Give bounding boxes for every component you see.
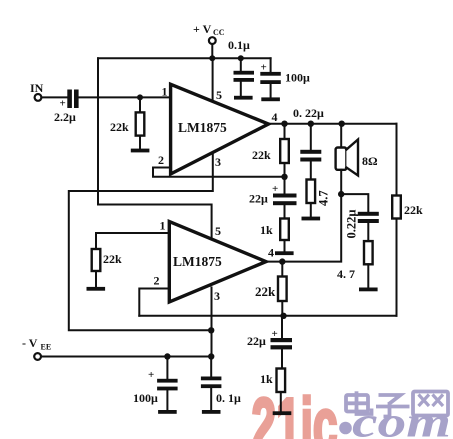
svg-text:3: 3 xyxy=(215,155,221,169)
capacitor C5 0.22µ zobel1 xyxy=(300,124,321,180)
node speaker top junction xyxy=(339,121,345,127)
svg-text:CC: CC xyxy=(213,28,225,37)
wire U1 pin2 step to node A xyxy=(153,168,285,177)
svg-text:2.2μ: 2.2μ xyxy=(54,110,76,124)
capacitor C2 0.1µ (Vcc bypass) xyxy=(228,38,254,96)
svg-text:0.1μ: 0.1μ xyxy=(228,38,250,52)
svg-text:22k: 22k xyxy=(103,252,122,266)
op-amp U2 LM1875 xyxy=(154,219,275,304)
svg-text:EE: EE xyxy=(41,343,52,352)
ground for R9 xyxy=(273,411,292,415)
resistor R8 22k feedback U2 xyxy=(255,262,287,316)
ground for R4 xyxy=(302,217,321,221)
node U2 output xyxy=(279,258,285,264)
wire input capacitor to U1 pin1 xyxy=(79,96,171,98)
svg-text:0.22μ: 0.22μ xyxy=(345,210,359,239)
wire top Vcc rail xyxy=(98,57,271,59)
wire speaker bottom to zobel2 xyxy=(341,194,368,212)
resistor R3 1k (U1 gain) xyxy=(260,219,289,253)
speaker LS1 8Ω xyxy=(336,124,378,194)
svg-text:1k: 1k xyxy=(260,223,273,237)
svg-text:+: + xyxy=(261,62,267,74)
ground for R5 xyxy=(359,288,378,292)
svg-text:2: 2 xyxy=(154,274,160,288)
svg-text:+: + xyxy=(60,98,66,110)
svg-text:22k: 22k xyxy=(404,203,423,217)
svg-text:IN: IN xyxy=(30,81,44,95)
svg-text:+: + xyxy=(272,183,278,195)
node pin3 / rail junction xyxy=(208,353,214,359)
capacitor C8 100µ (Vee bulk) xyxy=(133,357,178,411)
node zobel1 junction xyxy=(308,121,314,127)
svg-text:0. 22μ: 0. 22μ xyxy=(293,106,324,120)
capacitor C9 0.1µ (Vee bypass) xyxy=(201,357,241,411)
wire U2 pin2 step xyxy=(139,289,169,316)
svg-text:4.7: 4.7 xyxy=(317,190,331,206)
-Vee terminal xyxy=(22,336,51,360)
svg-text:1k: 1k xyxy=(260,372,273,386)
node U1 output xyxy=(281,121,287,127)
svg-text:100μ: 100μ xyxy=(285,71,310,85)
svg-text:22k: 22k xyxy=(252,148,271,162)
svg-text:- V: - V xyxy=(22,336,38,350)
+Vcc terminal xyxy=(193,22,225,58)
ground for R7 xyxy=(87,287,106,291)
node input junction xyxy=(137,94,143,100)
node 0.1µ junction xyxy=(238,55,244,61)
resistor R2 22k feedback U1 xyxy=(252,124,289,177)
capacitor C7 22µ (U2 gain) xyxy=(247,316,292,369)
wire U2 pin1 xyxy=(96,233,169,288)
capacitor C3 100µ (Vcc bulk) xyxy=(260,58,310,98)
resistor R4 4.7 zobel1 xyxy=(307,180,331,218)
svg-text:22μ: 22μ xyxy=(249,192,268,206)
svg-text:8Ω: 8Ω xyxy=(362,154,378,168)
svg-text:+: + xyxy=(272,328,278,340)
svg-text:LM1875: LM1875 xyxy=(178,120,227,135)
svg-text:5: 5 xyxy=(215,224,221,238)
ground for R1 xyxy=(131,149,150,153)
svg-text:1: 1 xyxy=(160,219,166,233)
svg-text:21ic: 21ic xyxy=(252,383,338,439)
wire U2 pin3 to -Vee rail xyxy=(211,288,213,357)
node pin3 / loop junction xyxy=(208,327,214,333)
node speaker bottom junction xyxy=(338,191,344,197)
node 100µ bottom junction xyxy=(164,353,170,359)
svg-text:4. 7: 4. 7 xyxy=(337,267,355,281)
wire input from IN to capacitor xyxy=(41,96,67,98)
svg-text:5: 5 xyxy=(216,88,222,102)
wire node B line xyxy=(139,315,396,317)
resistor R1 22k input xyxy=(110,97,144,149)
svg-text:+ V: + V xyxy=(193,22,212,36)
svg-text:LM1875: LM1875 xyxy=(173,254,222,269)
wire U2 output to speaker bottom xyxy=(266,194,341,262)
capacitor C4 22µ (U1 gain) xyxy=(249,177,297,219)
watermark 21ic.com dianziwang xyxy=(252,383,452,439)
capacitor C1 2.2µ xyxy=(54,90,79,125)
svg-text:100μ: 100μ xyxy=(133,391,158,405)
ground for C9 xyxy=(202,410,221,414)
svg-text:4: 4 xyxy=(268,246,274,260)
node B junction xyxy=(280,313,286,319)
wire -Vee rail xyxy=(41,356,212,358)
resistor R7 22k U2 input to ground xyxy=(92,249,122,271)
resistor R9 1k (U2 gain) xyxy=(260,369,285,413)
wire U1 pin5 xyxy=(212,58,214,101)
svg-text:2: 2 xyxy=(158,153,164,167)
svg-text:3: 3 xyxy=(214,289,220,303)
ground for R3 xyxy=(275,251,294,255)
svg-text:+: + xyxy=(148,369,154,381)
ground for C2 xyxy=(234,96,253,100)
resistor R6 22k (right, U2 input from U1 out) xyxy=(392,124,423,316)
ground for C8 xyxy=(158,410,177,414)
wire Vcc left loop to U2 pin5 xyxy=(98,58,212,238)
node Vcc rail / pin5 junction xyxy=(209,55,215,61)
wire U1 output rail xyxy=(269,123,397,125)
ground for C3 xyxy=(261,97,280,101)
op-amp U1 LM1875 xyxy=(158,84,278,174)
svg-text:22k: 22k xyxy=(110,120,129,134)
svg-text:0. 1μ: 0. 1μ xyxy=(216,391,241,405)
capacitor C6 0.22µ zobel2 xyxy=(345,210,379,242)
node A feedback junction xyxy=(281,174,287,180)
svg-text:4: 4 xyxy=(272,110,278,124)
wire U1 pin3 to -Vee loop xyxy=(69,153,213,331)
svg-text:1: 1 xyxy=(162,85,168,99)
input terminal IN xyxy=(30,81,44,101)
svg-text:22μ: 22μ xyxy=(247,334,266,348)
resistor R5 4.7 zobel2 xyxy=(337,241,373,287)
svg-text:22k: 22k xyxy=(255,284,276,299)
